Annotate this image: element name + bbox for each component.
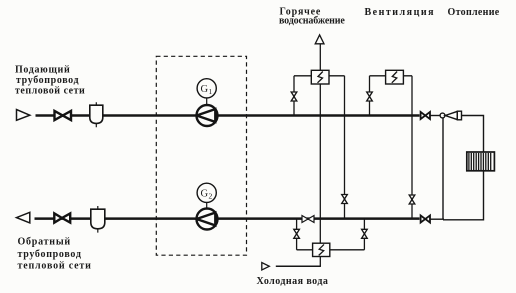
svg-text:G: G (201, 84, 209, 95)
svg-text:Холодная вода: Холодная вода (257, 276, 329, 287)
svg-text:тепловой сети: тепловой сети (15, 86, 85, 97)
svg-text:тепловой сети: тепловой сети (18, 261, 92, 272)
svg-text:2: 2 (209, 192, 213, 201)
svg-text:G: G (201, 189, 209, 200)
svg-text:трубопровод: трубопровод (18, 249, 82, 260)
svg-text:водоснабжение: водоснабжение (279, 16, 345, 27)
svg-text:трубопровод: трубопровод (16, 75, 79, 86)
svg-text:1: 1 (209, 87, 213, 96)
svg-text:Вентиляция: Вентиляция (365, 7, 436, 18)
svg-text:Отопление: Отопление (448, 7, 500, 18)
svg-text:Обратный: Обратный (18, 237, 71, 248)
svg-text:Подающий: Подающий (15, 65, 70, 76)
